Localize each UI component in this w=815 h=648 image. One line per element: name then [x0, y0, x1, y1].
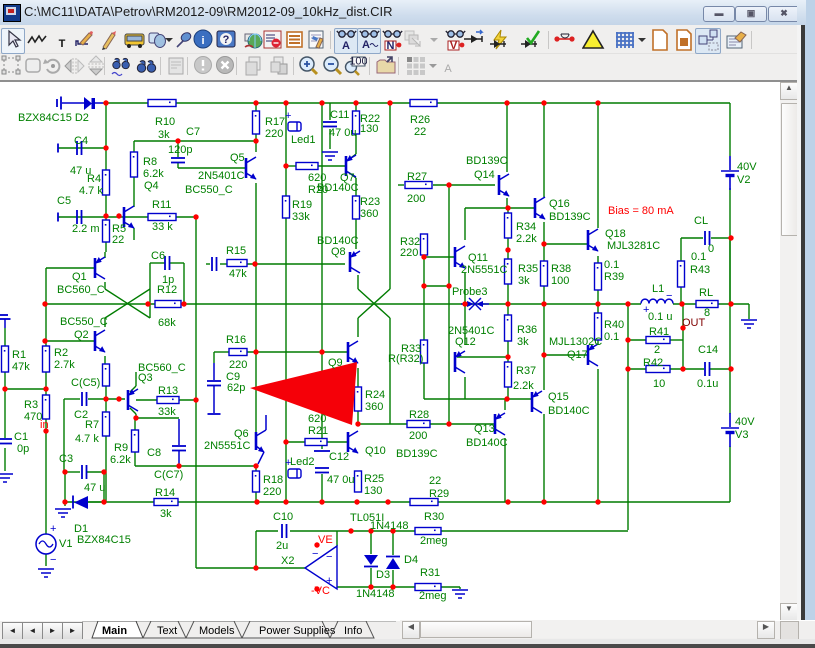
svg-text:Bias = 80 mA: Bias = 80 mA: [608, 205, 674, 217]
svg-text:3k: 3k: [158, 129, 170, 141]
svg-text:33 k: 33 k: [152, 221, 173, 233]
svg-text:A: A: [362, 39, 370, 51]
svg-text:R42: R42: [643, 357, 663, 369]
svg-text:R35: R35: [518, 263, 538, 275]
svg-text:R38: R38: [551, 263, 571, 275]
svg-text:0.1: 0.1: [604, 331, 619, 343]
svg-text:33k: 33k: [292, 211, 310, 223]
svg-text:62p: 62p: [227, 382, 245, 394]
svg-text:R40: R40: [604, 319, 624, 331]
svg-text:MJL3281C: MJL3281C: [607, 240, 660, 252]
svg-text:R31: R31: [420, 567, 440, 579]
svg-text:R37: R37: [516, 365, 536, 377]
svg-text:2u: 2u: [276, 540, 288, 552]
svg-text:in: in: [40, 419, 49, 431]
svg-text:40V: 40V: [735, 416, 755, 428]
svg-text:2meg: 2meg: [420, 535, 448, 547]
svg-text:R36: R36: [517, 324, 537, 336]
svg-text:R25: R25: [364, 473, 384, 485]
svg-text:Q4: Q4: [144, 180, 159, 192]
svg-text:R26: R26: [410, 114, 430, 126]
svg-text:Q16: Q16: [549, 198, 570, 210]
svg-text:BD140C: BD140C: [548, 405, 590, 417]
svg-text:0.1u: 0.1u: [697, 378, 718, 390]
svg-text:C6: C6: [151, 250, 165, 262]
svg-text:V1: V1: [59, 538, 72, 550]
svg-text:R43: R43: [690, 264, 710, 276]
svg-text:2.7k: 2.7k: [54, 359, 75, 371]
svg-text:Q15: Q15: [548, 391, 569, 403]
svg-text:4.7 k: 4.7 k: [79, 185, 103, 197]
svg-text:R30: R30: [424, 511, 444, 523]
svg-text:220: 220: [265, 128, 283, 140]
svg-text:3k: 3k: [518, 275, 530, 287]
svg-text:+: +: [50, 523, 56, 535]
svg-text:2: 2: [654, 344, 660, 356]
svg-text:R(R32): R(R32): [388, 353, 423, 365]
svg-text:V3: V3: [735, 429, 748, 441]
svg-text:Q17: Q17: [567, 349, 588, 361]
svg-text:100: 100: [349, 56, 367, 68]
svg-text:2meg: 2meg: [419, 590, 447, 602]
svg-text:220: 220: [229, 359, 247, 371]
svg-text:R14: R14: [155, 487, 175, 499]
svg-text:R9: R9: [114, 442, 128, 454]
svg-text:R41: R41: [649, 326, 669, 338]
svg-text:R1: R1: [12, 349, 26, 361]
svg-text:0p: 0p: [17, 443, 29, 455]
svg-text:22: 22: [414, 126, 426, 138]
svg-text:R34: R34: [516, 221, 536, 233]
svg-text:22: 22: [112, 234, 124, 246]
svg-text:1N4148: 1N4148: [370, 520, 409, 532]
svg-text:2N5551C: 2N5551C: [461, 264, 508, 276]
svg-text:BD140C: BD140C: [466, 437, 508, 449]
svg-text:Main: Main: [102, 625, 127, 637]
svg-text:BD140C: BD140C: [317, 182, 359, 194]
svg-text:Q13: Q13: [474, 423, 495, 435]
svg-text:47 0u: 47 0u: [327, 474, 355, 486]
svg-text:X2: X2: [281, 555, 294, 567]
svg-text:R12: R12: [157, 284, 177, 296]
svg-text:BD139C: BD139C: [396, 448, 438, 460]
svg-text:V: V: [450, 40, 458, 52]
svg-text:+: +: [285, 110, 291, 122]
svg-text:Q3: Q3: [138, 372, 153, 384]
svg-text:Q9: Q9: [328, 357, 343, 369]
svg-text:Q14: Q14: [474, 169, 495, 181]
svg-text:R4: R4: [87, 173, 101, 185]
svg-text:6.2k: 6.2k: [110, 454, 131, 466]
svg-text:CL: CL: [694, 215, 708, 227]
svg-text:0: 0: [708, 243, 714, 255]
svg-text:220: 220: [400, 247, 418, 259]
svg-text:22: 22: [429, 475, 441, 487]
svg-text:R23: R23: [360, 196, 380, 208]
svg-text:MJL1302C: MJL1302C: [549, 336, 602, 348]
svg-text:i: i: [201, 35, 204, 47]
svg-text:3k: 3k: [517, 336, 529, 348]
svg-text:BZX84C15: BZX84C15: [77, 534, 131, 546]
svg-text:Q6: Q6: [234, 428, 249, 440]
svg-text:Q11: Q11: [468, 252, 488, 264]
svg-text:47k: 47k: [12, 361, 30, 373]
svg-text:0.1: 0.1: [691, 251, 706, 263]
svg-text:120p: 120p: [168, 144, 192, 156]
svg-text:47 0u: 47 0u: [329, 127, 357, 139]
svg-text:4.7 k: 4.7 k: [75, 433, 99, 445]
svg-text:Info: Info: [344, 625, 362, 637]
svg-text:2.2k: 2.2k: [516, 233, 537, 245]
svg-text:−: −: [312, 548, 318, 560]
svg-text:C3: C3: [59, 453, 73, 465]
svg-text:V2: V2: [737, 174, 750, 186]
svg-text:C11: C11: [330, 109, 349, 121]
svg-text:C14: C14: [698, 344, 718, 356]
svg-text:R28: R28: [409, 409, 429, 421]
svg-text:OUT: OUT: [682, 317, 706, 329]
svg-text:360: 360: [365, 401, 383, 413]
svg-text:R3: R3: [24, 399, 38, 411]
svg-text:R21: R21: [308, 425, 328, 437]
svg-text:R29: R29: [429, 488, 449, 500]
svg-text:2N5551C: 2N5551C: [204, 440, 251, 452]
svg-text:R7: R7: [85, 419, 99, 431]
svg-text:Q12: Q12: [455, 336, 476, 348]
svg-text:200: 200: [407, 193, 425, 205]
svg-text:−: −: [666, 290, 672, 302]
svg-text:Q8: Q8: [331, 246, 346, 258]
svg-text:Q2: Q2: [74, 329, 89, 341]
svg-text:R11: R11: [152, 199, 171, 211]
svg-text:Led1: Led1: [291, 134, 315, 146]
svg-text:130: 130: [364, 485, 382, 497]
svg-text:C(C5): C(C5): [71, 377, 100, 389]
svg-text:3k: 3k: [160, 508, 172, 520]
svg-text:BZX84C15 D2: BZX84C15 D2: [18, 112, 89, 124]
svg-text:Q18: Q18: [605, 228, 626, 240]
svg-text:360: 360: [360, 208, 378, 220]
svg-text:C7: C7: [186, 126, 200, 138]
svg-text:BC560_C: BC560_C: [57, 284, 105, 296]
svg-text:10: 10: [653, 378, 665, 390]
svg-text:130: 130: [360, 123, 378, 135]
svg-text:A: A: [342, 40, 350, 52]
svg-text:2N5401C: 2N5401C: [198, 170, 245, 182]
svg-text:6.2k: 6.2k: [143, 168, 164, 180]
svg-text:Probe3: Probe3: [452, 286, 487, 298]
svg-text:−: −: [326, 551, 332, 563]
svg-text:C4: C4: [74, 135, 88, 147]
svg-text:R16: R16: [226, 334, 246, 346]
svg-text:0.1 u: 0.1 u: [648, 311, 672, 323]
svg-text:200: 200: [409, 430, 427, 442]
svg-text:R17: R17: [265, 116, 285, 128]
svg-text:A: A: [444, 63, 452, 75]
svg-text:1N4148: 1N4148: [356, 588, 395, 600]
svg-text:BC550_C: BC550_C: [60, 316, 108, 328]
svg-text:VE: VE: [318, 534, 333, 546]
svg-text:−: −: [50, 554, 56, 566]
svg-text:0.1: 0.1: [604, 259, 619, 271]
svg-text:BC550_C: BC550_C: [185, 184, 233, 196]
svg-text:Text: Text: [157, 625, 177, 637]
svg-text:Power Supplies: Power Supplies: [259, 625, 336, 637]
svg-text:R13: R13: [158, 385, 178, 397]
svg-text:C10: C10: [273, 511, 293, 523]
svg-text:RL: RL: [699, 287, 713, 299]
svg-text:L1: L1: [652, 283, 664, 295]
svg-text:R24: R24: [365, 389, 385, 401]
svg-text:Q10: Q10: [365, 445, 386, 457]
svg-text:R19: R19: [292, 199, 312, 211]
svg-text:C12: C12: [329, 451, 349, 463]
svg-text:Led2: Led2: [290, 456, 314, 468]
svg-text:C1: C1: [14, 431, 28, 443]
svg-text:R10: R10: [155, 116, 175, 128]
svg-text:?: ?: [223, 34, 230, 46]
svg-text:Q5: Q5: [230, 152, 245, 164]
svg-text:N: N: [387, 40, 395, 52]
svg-text:68k: 68k: [158, 317, 176, 329]
svg-text:R27: R27: [407, 171, 427, 183]
svg-text:Q1: Q1: [72, 271, 87, 283]
svg-text:D4: D4: [404, 554, 418, 566]
svg-text:R15: R15: [226, 245, 246, 257]
svg-text:BD139C: BD139C: [466, 155, 508, 167]
svg-text:620: 620: [308, 413, 326, 425]
svg-text:2.2k: 2.2k: [513, 380, 534, 392]
svg-text:R8: R8: [143, 156, 157, 168]
svg-text:R39: R39: [604, 271, 624, 283]
svg-text:D3: D3: [376, 569, 390, 581]
svg-text:-VC: -VC: [311, 585, 330, 597]
svg-text:47 u: 47 u: [84, 482, 105, 494]
svg-text:C8: C8: [147, 447, 161, 459]
svg-text:C5: C5: [57, 195, 71, 207]
svg-text:2.2 m: 2.2 m: [72, 223, 100, 235]
svg-text:BD139C: BD139C: [549, 211, 591, 223]
svg-text:100: 100: [551, 275, 569, 287]
svg-text:Models: Models: [199, 625, 235, 637]
svg-text:T: T: [59, 38, 66, 50]
svg-text:C(C7): C(C7): [154, 469, 183, 481]
svg-text:R18: R18: [263, 474, 283, 486]
svg-text:33k: 33k: [158, 406, 176, 418]
svg-text:40V: 40V: [737, 161, 757, 173]
svg-text:220: 220: [263, 486, 281, 498]
svg-text:47k: 47k: [229, 268, 247, 280]
svg-text:R2: R2: [54, 347, 68, 359]
